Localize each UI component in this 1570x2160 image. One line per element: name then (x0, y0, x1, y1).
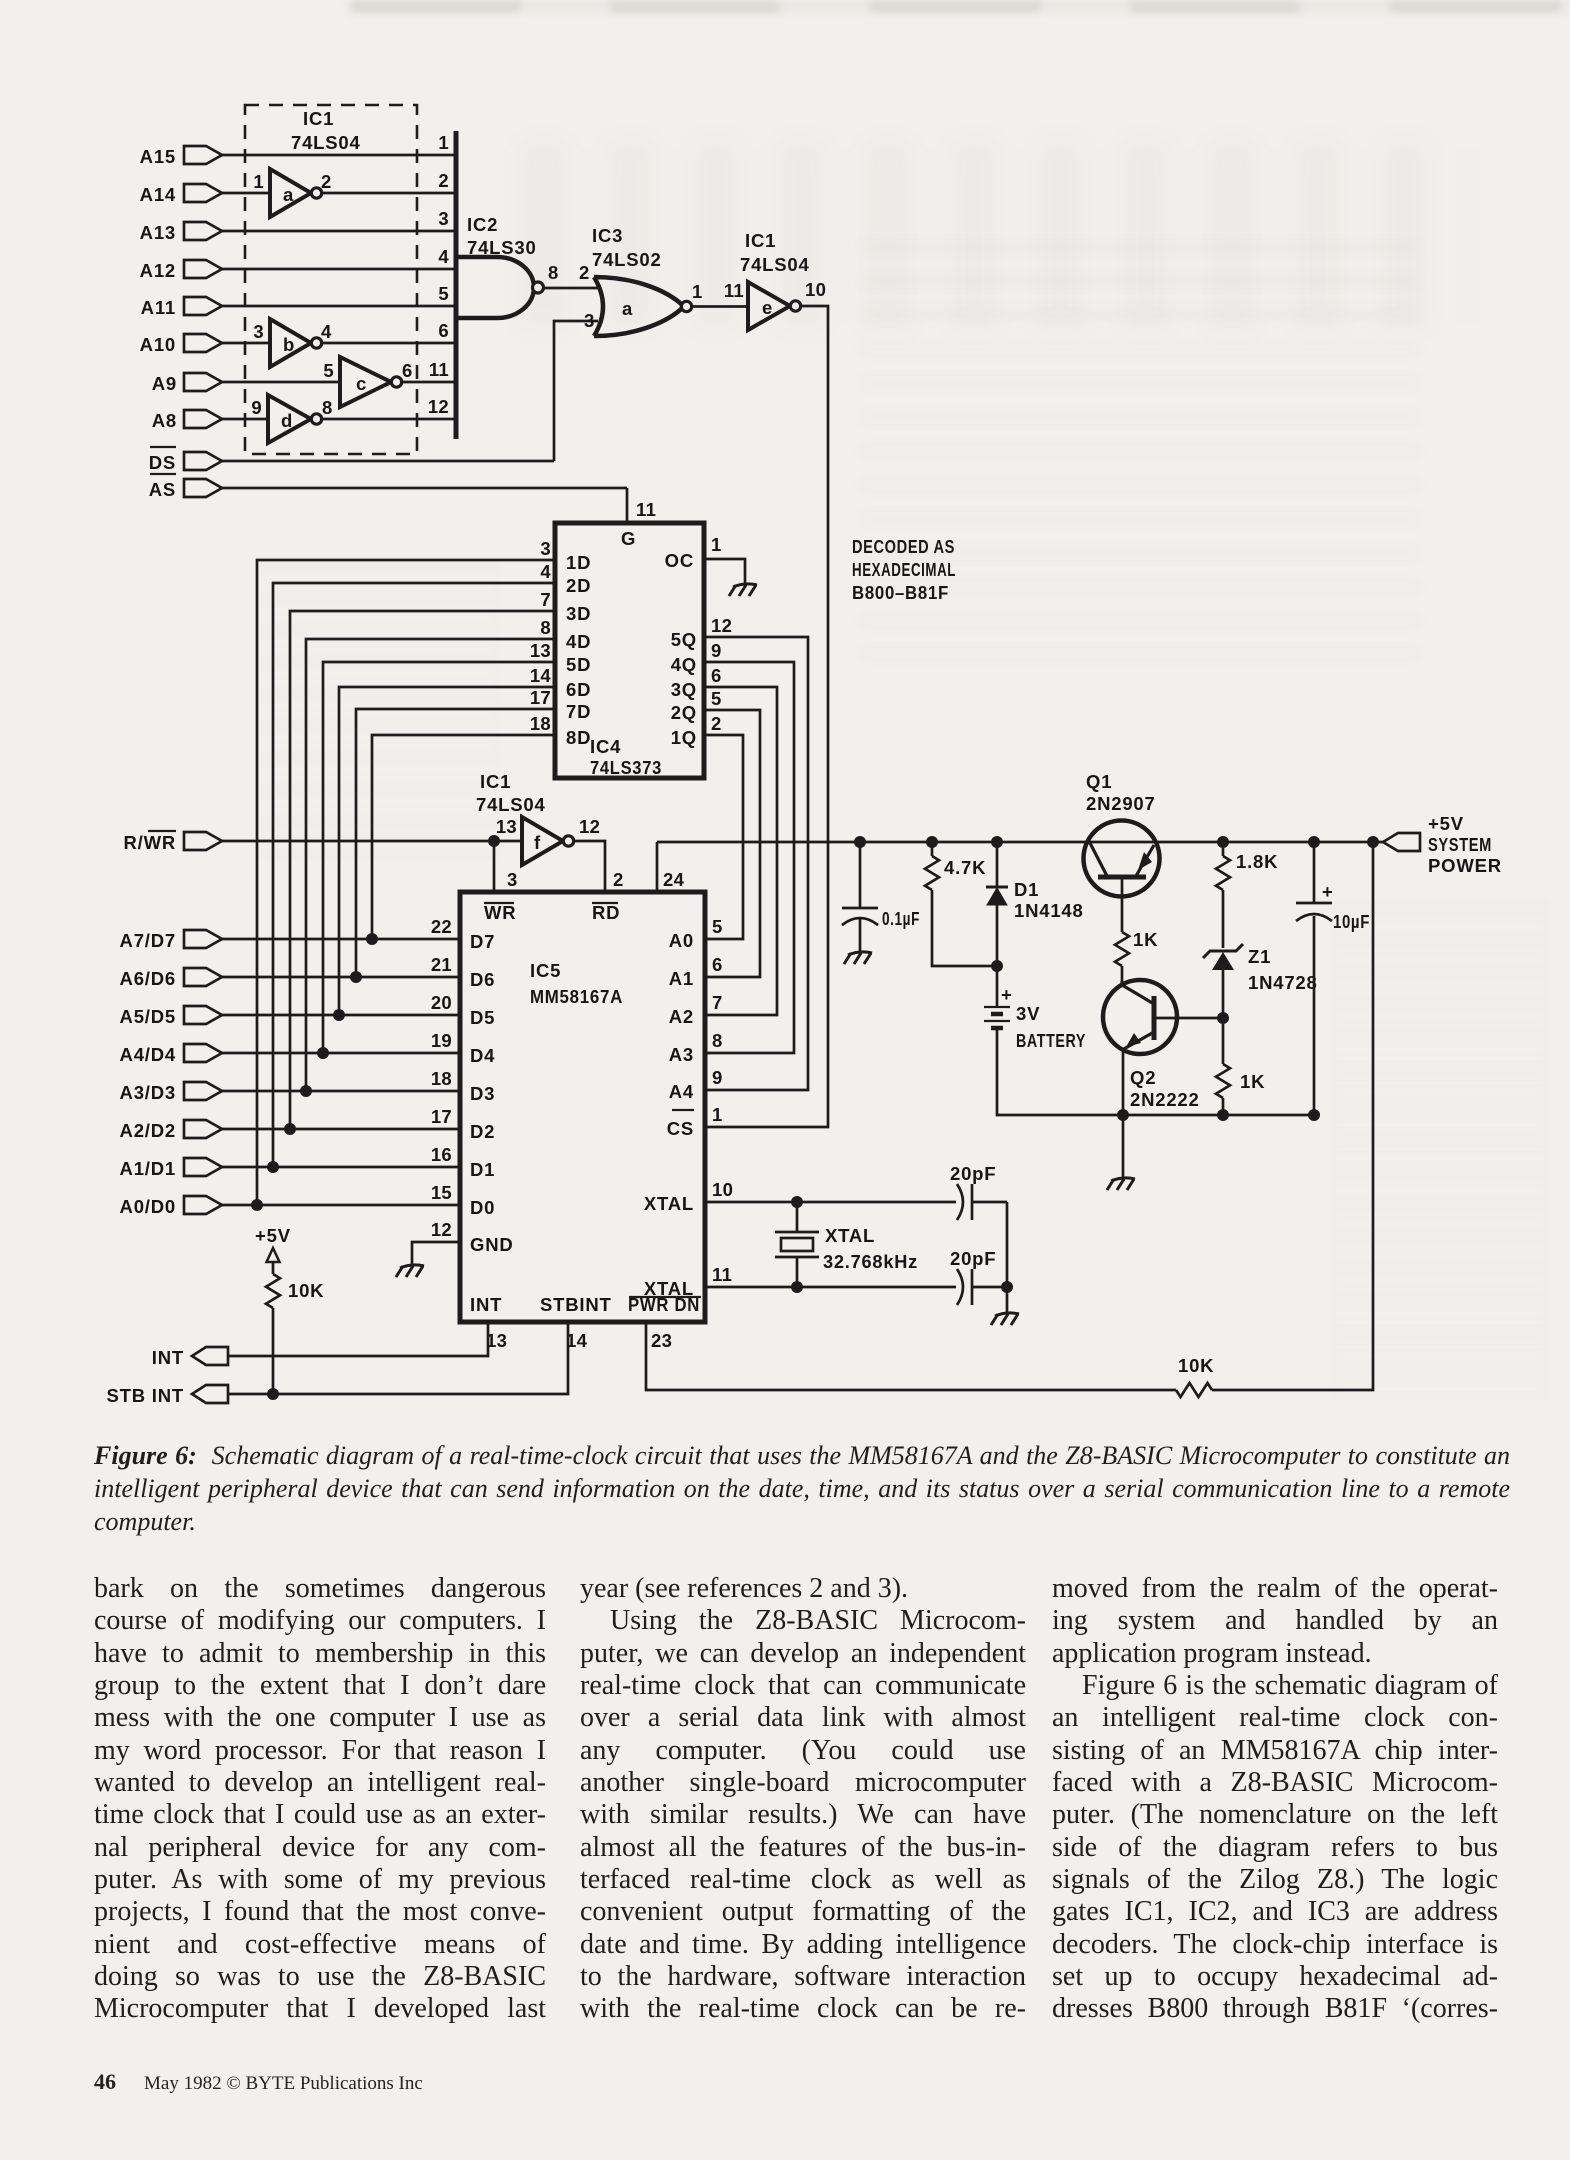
svg-text:BATTERY: BATTERY (1016, 1030, 1086, 1051)
svg-text:32.768kHz: 32.768kHz (823, 1251, 918, 1272)
svg-text:R/WR: R/WR (123, 832, 176, 853)
svg-text:WR: WR (484, 902, 516, 923)
svg-text:3: 3 (438, 208, 449, 229)
svg-text:4: 4 (321, 321, 332, 342)
svg-text:5: 5 (323, 360, 334, 381)
svg-text:XTAL: XTAL (644, 1193, 694, 1214)
svg-text:DS: DS (149, 452, 176, 473)
svg-text:24: 24 (663, 869, 685, 890)
svg-text:20: 20 (431, 992, 452, 1013)
svg-text:23: 23 (651, 1330, 672, 1351)
svg-text:4.7K: 4.7K (944, 857, 986, 878)
svg-text:MM58167A: MM58167A (530, 986, 623, 1007)
svg-text:19: 19 (431, 1030, 452, 1051)
svg-text:A1: A1 (669, 968, 694, 989)
svg-text:A3/D3: A3/D3 (120, 1082, 176, 1103)
svg-text:STB INT: STB INT (106, 1385, 184, 1406)
svg-text:D3: D3 (470, 1083, 495, 1104)
svg-text:12: 12 (579, 816, 600, 837)
svg-text:13: 13 (530, 640, 551, 661)
svg-text:+: + (1322, 881, 1333, 902)
svg-text:5Q: 5Q (671, 629, 697, 650)
svg-text:G: G (621, 528, 636, 549)
svg-text:1.8K: 1.8K (1236, 851, 1278, 872)
svg-text:4D: 4D (566, 631, 591, 652)
svg-text:OC: OC (665, 550, 694, 571)
svg-text:11: 11 (636, 499, 656, 520)
svg-text:A3: A3 (669, 1044, 694, 1065)
svg-text:11: 11 (712, 1264, 732, 1285)
svg-text:20pF: 20pF (950, 1163, 996, 1184)
svg-text:8: 8 (540, 617, 551, 638)
svg-text:8: 8 (712, 1030, 723, 1051)
svg-text:A0/D0: A0/D0 (120, 1196, 176, 1217)
svg-text:RD: RD (592, 902, 620, 923)
svg-text:1K: 1K (1133, 929, 1158, 950)
svg-text:+5V: +5V (255, 1225, 291, 1246)
svg-text:9: 9 (712, 1067, 723, 1088)
svg-text:5: 5 (712, 916, 723, 937)
svg-text:A11: A11 (141, 297, 176, 318)
svg-text:2N2907: 2N2907 (1086, 793, 1156, 814)
svg-text:4: 4 (540, 561, 551, 582)
svg-text:9: 9 (711, 640, 722, 661)
svg-text:1: 1 (253, 171, 264, 192)
svg-text:INT: INT (152, 1347, 184, 1368)
svg-text:6: 6 (402, 360, 413, 381)
svg-text:22: 22 (431, 916, 452, 937)
svg-text:Q1: Q1 (1086, 771, 1112, 792)
svg-text:74LS373: 74LS373 (590, 757, 662, 778)
svg-text:SYSTEM: SYSTEM (1428, 834, 1492, 855)
svg-text:D5: D5 (470, 1007, 495, 1028)
svg-text:74LS04: 74LS04 (291, 132, 361, 153)
svg-text:16: 16 (431, 1144, 452, 1165)
svg-text:Q2: Q2 (1130, 1067, 1156, 1088)
svg-text:INT: INT (470, 1294, 502, 1315)
svg-text:2: 2 (321, 171, 332, 192)
svg-text:1Q: 1Q (671, 727, 697, 748)
svg-text:1: 1 (711, 534, 722, 555)
svg-text:3Q: 3Q (671, 679, 697, 700)
svg-text:11: 11 (429, 359, 449, 380)
svg-text:D7: D7 (470, 931, 495, 952)
svg-text:A1/D1: A1/D1 (120, 1158, 176, 1179)
svg-text:10: 10 (712, 1179, 733, 1200)
svg-text:A12: A12 (140, 260, 176, 281)
svg-text:AS: AS (149, 479, 176, 500)
svg-text:+5V: +5V (1428, 813, 1464, 834)
svg-text:A14: A14 (140, 184, 176, 205)
svg-text:IC1: IC1 (303, 108, 334, 129)
svg-text:+: + (1001, 984, 1012, 1005)
svg-text:3D: 3D (566, 603, 591, 624)
svg-text:14: 14 (530, 665, 552, 686)
svg-text:2: 2 (711, 713, 722, 734)
svg-text:a: a (283, 184, 294, 205)
svg-text:D0: D0 (470, 1197, 495, 1218)
svg-text:A5/D5: A5/D5 (120, 1006, 176, 1027)
svg-text:A4: A4 (669, 1081, 694, 1102)
svg-text:b: b (283, 334, 295, 355)
svg-text:D1: D1 (1014, 879, 1039, 900)
svg-text:A9: A9 (152, 373, 177, 394)
svg-text:3: 3 (540, 538, 551, 559)
svg-text:2: 2 (613, 869, 624, 890)
svg-text:2N2222: 2N2222 (1130, 1089, 1200, 1110)
svg-text:3V: 3V (1016, 1003, 1040, 1024)
svg-text:IC4: IC4 (590, 736, 621, 757)
svg-text:CS: CS (667, 1118, 694, 1139)
svg-text:17: 17 (530, 687, 551, 708)
svg-text:4Q: 4Q (671, 654, 697, 675)
svg-text:12: 12 (431, 1219, 452, 1240)
svg-text:2D: 2D (566, 575, 591, 596)
svg-text:POWER: POWER (1428, 855, 1502, 876)
svg-text:6D: 6D (566, 679, 591, 700)
svg-text:D4: D4 (470, 1045, 495, 1066)
svg-text:0.1µF: 0.1µF (882, 908, 920, 929)
svg-text:3: 3 (253, 321, 264, 342)
svg-text:12: 12 (711, 615, 732, 636)
svg-text:8D: 8D (566, 727, 591, 748)
svg-text:10K: 10K (1178, 1355, 1214, 1376)
svg-text:A4/D4: A4/D4 (120, 1044, 176, 1065)
svg-text:D6: D6 (470, 969, 495, 990)
svg-text:A6/D6: A6/D6 (120, 968, 176, 989)
svg-text:A8: A8 (152, 410, 177, 431)
svg-text:10K: 10K (288, 1280, 324, 1301)
svg-text:6: 6 (438, 320, 449, 341)
svg-text:7: 7 (540, 589, 551, 610)
svg-text:7: 7 (712, 992, 723, 1013)
svg-text:A13: A13 (140, 222, 176, 243)
svg-text:IC5: IC5 (530, 960, 561, 981)
svg-text:IC2: IC2 (467, 214, 498, 235)
svg-text:5: 5 (711, 688, 722, 709)
svg-text:d: d (281, 410, 293, 431)
svg-text:3: 3 (507, 869, 518, 890)
svg-text:A2/D2: A2/D2 (120, 1120, 176, 1141)
svg-text:9: 9 (251, 397, 262, 418)
svg-text:XTAL: XTAL (825, 1225, 875, 1246)
svg-text:STBINT: STBINT (540, 1294, 612, 1315)
svg-text:8: 8 (322, 397, 333, 418)
svg-text:A10: A10 (140, 334, 176, 355)
svg-text:1: 1 (712, 1104, 723, 1125)
svg-text:6: 6 (712, 954, 723, 975)
svg-text:D1: D1 (470, 1159, 495, 1180)
svg-text:18: 18 (530, 713, 551, 734)
svg-text:17: 17 (431, 1106, 452, 1127)
svg-text:1N4148: 1N4148 (1014, 900, 1084, 921)
svg-text:c: c (356, 373, 367, 394)
svg-text:21: 21 (431, 954, 452, 975)
svg-text:GND: GND (470, 1234, 514, 1255)
svg-text:7D: 7D (566, 701, 591, 722)
svg-text:A0: A0 (669, 930, 694, 951)
svg-text:12: 12 (428, 396, 449, 417)
svg-text:15: 15 (431, 1182, 452, 1203)
svg-text:Z1: Z1 (1248, 946, 1271, 967)
svg-text:A15: A15 (140, 146, 176, 167)
svg-text:20pF: 20pF (950, 1248, 996, 1269)
svg-text:1: 1 (438, 132, 449, 153)
svg-text:2Q: 2Q (671, 702, 697, 723)
svg-text:D2: D2 (470, 1121, 495, 1142)
svg-text:5D: 5D (566, 654, 591, 675)
svg-text:2: 2 (438, 170, 449, 191)
svg-text:18: 18 (431, 1068, 452, 1089)
svg-text:1N4728: 1N4728 (1248, 972, 1318, 993)
svg-text:A7/D7: A7/D7 (120, 930, 176, 951)
svg-text:1D: 1D (566, 552, 591, 573)
svg-text:1K: 1K (1240, 1071, 1265, 1092)
svg-text:A2: A2 (669, 1006, 694, 1027)
svg-text:f: f (534, 832, 541, 853)
svg-text:5: 5 (438, 283, 449, 304)
svg-text:6: 6 (711, 665, 722, 686)
svg-text:4: 4 (438, 246, 449, 267)
